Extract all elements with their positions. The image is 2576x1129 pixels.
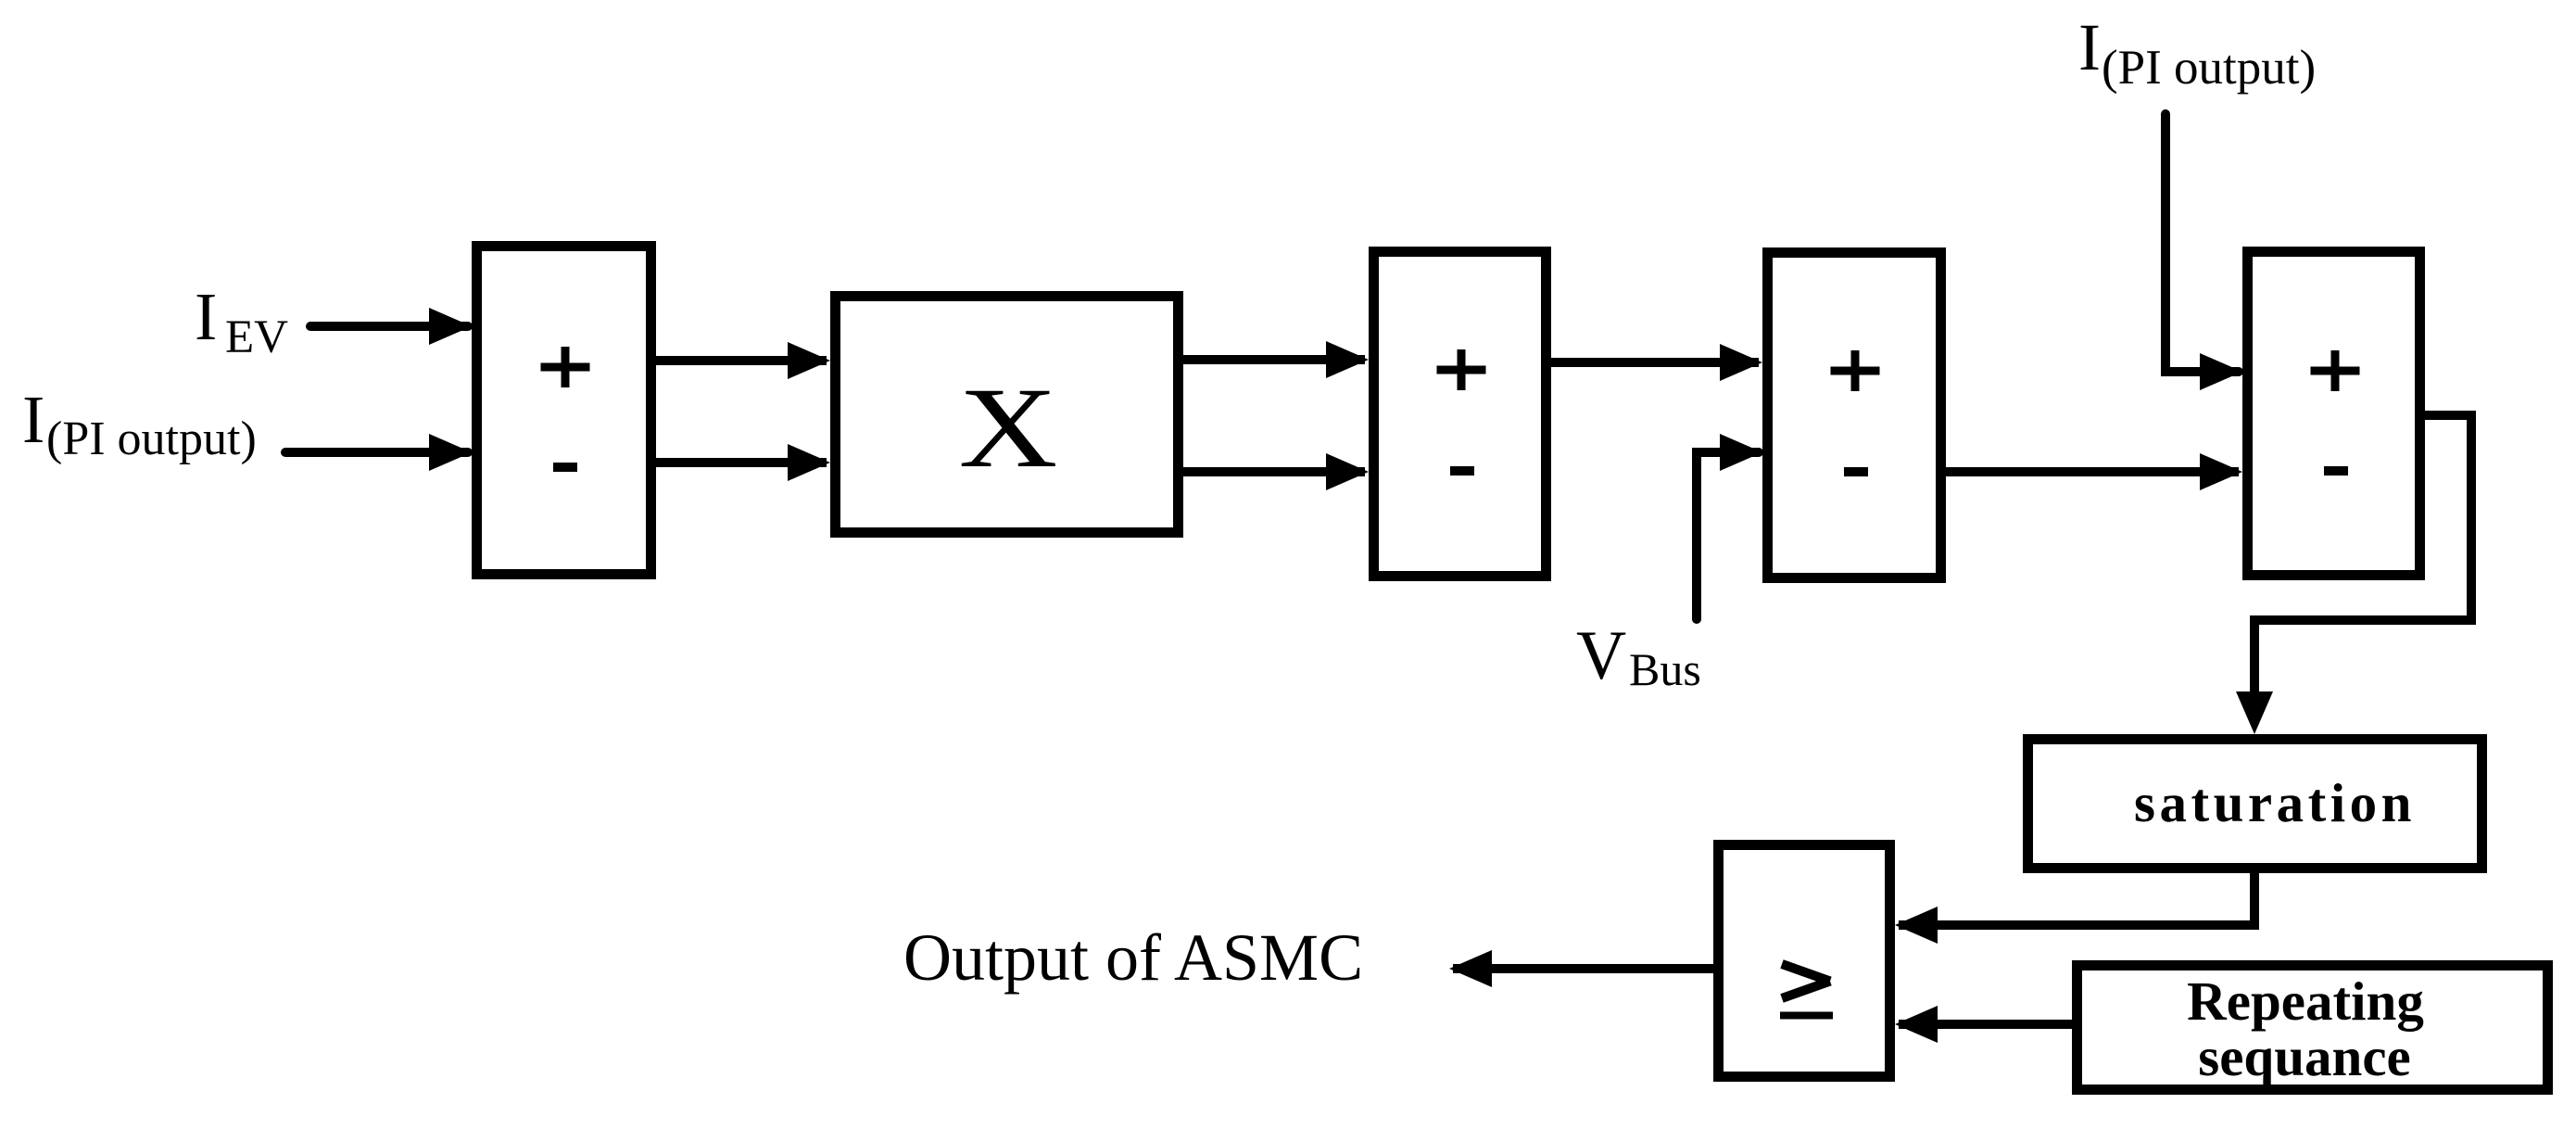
svg-text:sequance: sequance [2198, 1026, 2410, 1087]
wire arrow I_(PI output) into summing block S1 minus input [285, 434, 472, 471]
wire relational block output arrow left [1449, 950, 1713, 987]
wire X bottom output to summing block S2 minus input [1183, 453, 1369, 490]
svg-text:EV: EV [225, 311, 288, 363]
svg-text:I: I [195, 279, 217, 354]
svg-text:I: I [2078, 10, 2101, 84]
svg-text:Repeating: Repeating [2187, 970, 2424, 1032]
svg-text:saturation: saturation [2134, 772, 2416, 833]
wire I_(PI output) down and into summing block S4 plus input [2166, 114, 2242, 390]
svg-text:Bus: Bus [1629, 643, 1701, 695]
wire saturation output down and left into relational block [1895, 873, 2254, 944]
summing block S4 [2248, 252, 2420, 576]
wire X top output to summing block S2 plus input [1183, 341, 1369, 378]
label I_(PI output) top [2078, 10, 2316, 95]
wire S3 output to summing block S4 minus input [1946, 453, 2242, 490]
svg-text:X: X [959, 364, 1058, 491]
repeating sequence block [2077, 966, 2548, 1090]
summing block S1 [477, 247, 651, 575]
svg-text:V: V [1576, 617, 1626, 694]
saturation block [2028, 740, 2482, 869]
svg-text:Output of ASMC: Output of ASMC [903, 920, 1363, 995]
wire arrow I_EV into summing block S1 plus input [310, 308, 472, 345]
wire S1 minus output to multiplier X bottom input [656, 444, 830, 481]
wire S1 plus output to multiplier X top input [656, 342, 830, 379]
svg-text:(PI output): (PI output) [46, 412, 257, 465]
wire S4 output right, down, left, down into saturation block [2236, 415, 2471, 734]
summing block S2 [1374, 252, 1547, 577]
label V_Bus [1576, 617, 1701, 695]
label I_(PI output) left [22, 382, 257, 465]
wire S2 output to summing block S3 plus input [1551, 344, 1762, 381]
wire V_Bus up and into summing block S3 minus input [1697, 434, 1762, 619]
wire repeating sequence output into relational block [1895, 1006, 2072, 1043]
summing block S3 [1768, 253, 1941, 578]
relational operator block GE [1719, 845, 1890, 1077]
multiplier block X [836, 297, 1179, 533]
svg-text:(PI output): (PI output) [2102, 41, 2316, 95]
label I_EV [195, 279, 288, 363]
svg-text:I: I [22, 382, 44, 457]
